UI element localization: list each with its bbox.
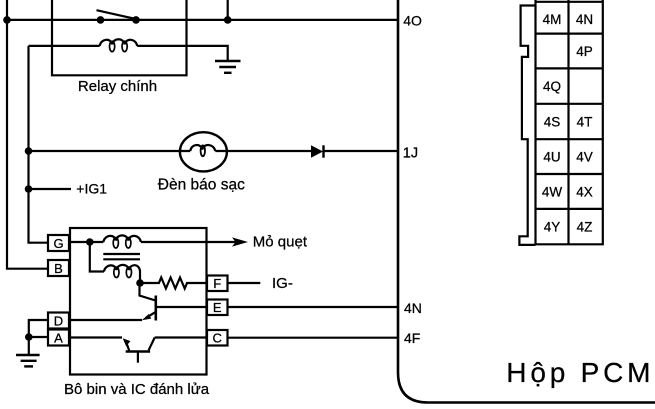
arrow Mo quet <box>232 237 248 246</box>
pin 4T <box>577 115 593 130</box>
pin 4U <box>543 150 560 165</box>
wire left vertical bus 1 <box>7 0 48 269</box>
svg-text:4W: 4W <box>542 185 563 200</box>
svg-text:4U: 4U <box>543 150 560 165</box>
svg-text:4N: 4N <box>404 300 422 316</box>
wire relay coil left lead <box>29 45 100 47</box>
svg-text:4F: 4F <box>404 330 420 346</box>
svg-text:+IG1: +IG1 <box>76 181 107 197</box>
wire main B+ horizontal <box>7 19 398 21</box>
label Mo quet <box>253 233 308 250</box>
pin 4Z <box>577 220 593 235</box>
svg-text:1J: 1J <box>403 145 418 161</box>
transformer secondary coil <box>104 265 140 283</box>
relay box outline <box>52 0 187 75</box>
wire D external to ground <box>29 320 48 337</box>
label IG- <box>272 275 293 292</box>
svg-text:4Z: 4Z <box>577 220 593 235</box>
lamp Den bao sac <box>180 132 227 171</box>
node junction ground2 <box>25 333 33 341</box>
svg-text:4T: 4T <box>577 115 593 130</box>
label 4F <box>404 330 420 346</box>
node junction IG1 <box>25 185 33 193</box>
pin F <box>207 276 228 292</box>
relay coil L1 <box>100 39 138 51</box>
pin 4S <box>544 115 561 130</box>
svg-text:4Q: 4Q <box>543 79 561 94</box>
wire E internal (collector) <box>156 306 207 308</box>
pin 4P <box>576 44 593 59</box>
label Relay chinh <box>78 78 157 95</box>
wire +IG1 stub <box>29 188 72 190</box>
svg-text:E: E <box>213 300 222 315</box>
connector housing outline <box>519 6 535 245</box>
svg-text:Đèn báo sạc: Đèn báo sạc <box>158 176 245 193</box>
igniter box outline <box>70 228 207 375</box>
svg-text:A: A <box>54 330 63 345</box>
svg-text:4V: 4V <box>576 150 593 165</box>
svg-text:4X: 4X <box>576 185 593 200</box>
label 1J <box>403 145 418 161</box>
pin G <box>48 235 69 251</box>
switch contact left <box>97 16 105 24</box>
wire secondary left leg <box>90 242 104 272</box>
pin E <box>207 300 228 316</box>
transistor Q1 <box>142 296 156 321</box>
svg-text:4M: 4M <box>543 12 562 27</box>
svg-text:C: C <box>213 331 222 346</box>
pin 4M <box>543 12 562 27</box>
wire lamp left lead <box>29 150 191 152</box>
svg-text:F: F <box>213 276 221 291</box>
label 4O <box>403 13 422 29</box>
PCM box outline <box>398 0 655 403</box>
wire left vertical bus 2 <box>29 46 49 243</box>
wire A external <box>29 336 48 338</box>
ground G1 <box>215 61 241 73</box>
wire A internal <box>70 336 122 338</box>
pin 4Q <box>543 79 561 94</box>
svg-text:4Y: 4Y <box>544 220 561 235</box>
label 4N <box>404 300 422 316</box>
wire vertical drop to 4O node <box>227 0 229 20</box>
node junction lamp <box>25 147 33 155</box>
switch blade <box>97 10 134 18</box>
connector grid outline <box>536 0 603 244</box>
svg-text:Hộp PCM: Hộp PCM <box>506 357 654 388</box>
switch contact right <box>132 16 140 24</box>
wire primary to sweep arrow <box>141 241 240 243</box>
svg-text:Bô bin và IC đánh lửa: Bô bin và IC đánh lửa <box>64 381 210 398</box>
transistor Q2 <box>123 338 155 363</box>
pin C <box>207 330 228 346</box>
wire D internal <box>70 319 142 321</box>
svg-text:Mỏ quẹt: Mỏ quẹt <box>253 233 308 250</box>
svg-text:D: D <box>54 313 63 328</box>
svg-text:4O: 4O <box>403 13 422 29</box>
label Bo bin va IC danh lua <box>64 381 210 398</box>
pin A <box>48 330 69 346</box>
pin 4Y <box>544 220 561 235</box>
svg-text:4N: 4N <box>576 12 593 27</box>
diode D1 <box>311 145 324 157</box>
pin 4W <box>542 185 563 200</box>
svg-text:IG-: IG- <box>272 275 293 292</box>
pin 4X <box>576 185 593 200</box>
wire C external to 4F <box>228 337 399 339</box>
node junction resistor <box>136 279 144 287</box>
pin 4N <box>576 12 593 27</box>
transformer primary coil <box>103 235 141 248</box>
wire Q1 base lead <box>140 283 156 301</box>
ground G2 <box>16 337 40 366</box>
resistor R1 <box>140 278 207 289</box>
svg-text:4S: 4S <box>544 115 561 130</box>
pin 4V <box>576 150 593 165</box>
pin B <box>48 260 69 276</box>
transformer core <box>103 254 140 259</box>
label +IG1 <box>76 181 107 197</box>
label Hop PCM <box>506 357 654 388</box>
node junction 4O <box>224 16 232 24</box>
svg-text:Relay chính: Relay chính <box>78 78 157 95</box>
wire diode to 1J <box>324 150 399 152</box>
wire lamp to diode <box>215 150 311 152</box>
svg-text:G: G <box>53 236 63 251</box>
wire E external to 4N <box>228 306 399 308</box>
wire G internal <box>69 241 103 243</box>
svg-text:B: B <box>54 261 63 276</box>
label Den bao sac <box>158 176 245 193</box>
pin D <box>48 313 69 329</box>
svg-text:4P: 4P <box>576 44 593 59</box>
wire Q2 collector to C <box>155 336 207 338</box>
wire relay coil right lead to ground <box>137 46 228 60</box>
node junction transformer top <box>86 238 94 246</box>
node junction top-left <box>3 16 11 24</box>
wire F external <box>228 282 261 284</box>
